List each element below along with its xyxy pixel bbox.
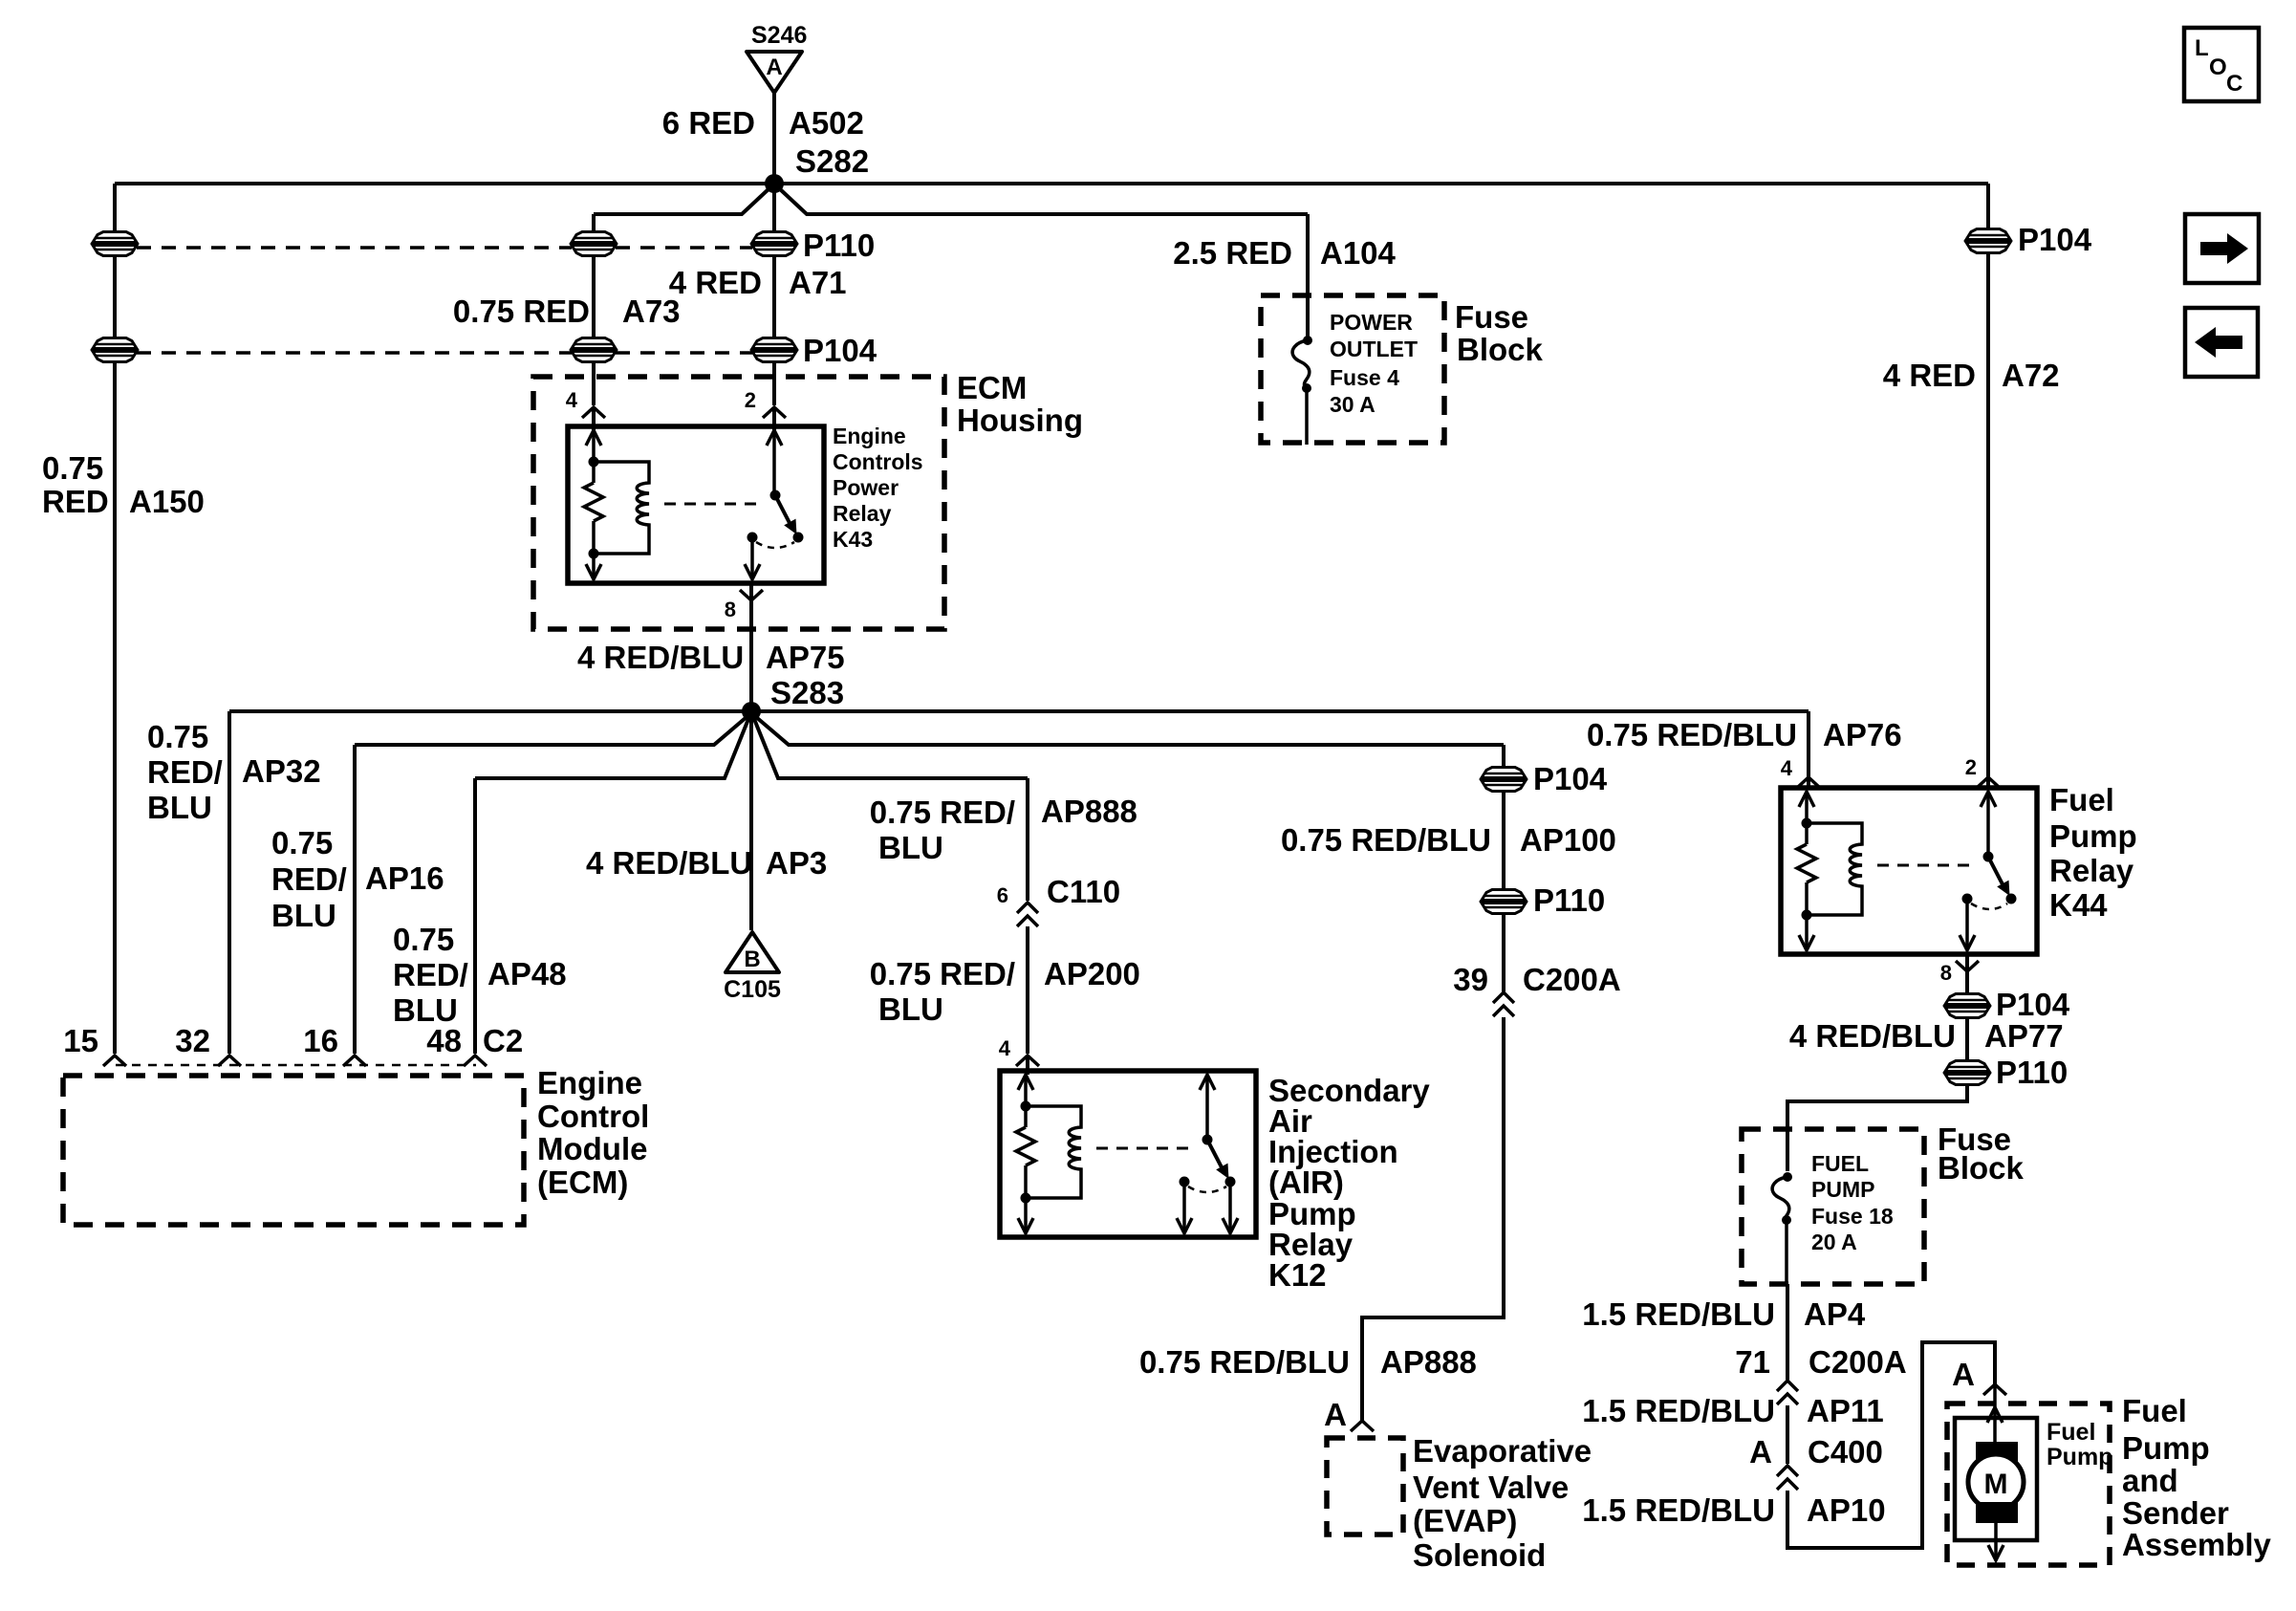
Engine Control Module label <box>537 1065 649 1200</box>
power feed triangle A (S246) <box>747 52 802 93</box>
relay K43 coil <box>594 462 649 554</box>
svg-text:AP200: AP200 <box>1044 956 1140 991</box>
svg-text:Fuse: Fuse <box>1455 299 1528 335</box>
svg-text:POWER: POWER <box>1330 310 1413 335</box>
svg-text:P110: P110 <box>1996 1055 2068 1090</box>
motor ground line <box>1994 1523 1998 1557</box>
arrow left legend box <box>2185 308 2258 377</box>
relay K43 box <box>568 426 824 583</box>
svg-text:O: O <box>2209 54 2227 80</box>
svg-text:Controls: Controls <box>833 449 923 474</box>
svg-text:Assembly: Assembly <box>2122 1527 2272 1562</box>
wire AP100 vertical <box>1502 745 1505 991</box>
svg-text:Vent Valve: Vent Valve <box>1413 1469 1569 1505</box>
svg-text:P104: P104 <box>1996 987 2070 1022</box>
relay K44 switch common line <box>1986 792 1990 857</box>
wire AP200 vertical to K12 <box>1026 926 1029 1054</box>
svg-text:4: 4 <box>566 388 578 412</box>
relay K44 coil branch arrowhead <box>1799 792 1814 807</box>
inline harness connector C400 <box>1777 1466 1798 1490</box>
svg-text:FUEL: FUEL <box>1811 1151 1869 1176</box>
pin 8 terminal chevron (K44) <box>1956 961 1979 971</box>
wire A71 vertical <box>772 184 776 405</box>
inline connector P110 (A71) <box>752 232 796 256</box>
svg-text:Pump: Pump <box>2047 1444 2112 1470</box>
relay K12 left down arrowhead <box>1018 1218 1033 1233</box>
EVAP solenoid dashed box <box>1327 1438 1403 1535</box>
wire pin A to motor <box>1993 1384 1997 1444</box>
fuse 4 top node <box>1303 336 1312 345</box>
wire fork left from S282 <box>594 187 770 214</box>
pin 4 terminal chevron (K12) <box>1016 1056 1039 1066</box>
wire 32 vertical (AP32) <box>227 711 231 1054</box>
relay K44 switch arm <box>1988 857 2010 896</box>
svg-text:Pump: Pump <box>2122 1430 2210 1466</box>
relay K44 resistor <box>1797 844 1816 882</box>
svg-text:0.75: 0.75 <box>147 719 208 754</box>
Fuse Block 2 dashed box <box>1742 1129 1924 1284</box>
pin 4 terminal chevron <box>582 407 605 418</box>
svg-text:32: 32 <box>175 1023 210 1058</box>
svg-text:ECM: ECM <box>957 370 1027 405</box>
fuse 18 lower lead <box>1785 1220 1788 1284</box>
LOC legend box <box>2184 28 2259 101</box>
inline harness connector C200A (39) <box>1493 992 1514 1016</box>
svg-text:AP10: AP10 <box>1807 1492 1886 1528</box>
wire A73 vertical <box>592 214 596 405</box>
svg-text:Engine: Engine <box>537 1065 642 1100</box>
wire label 0.75 RED/ BLU (AP200) <box>870 956 1015 1027</box>
ground triangle B (C105) <box>726 932 779 972</box>
relay K12 switch common line <box>1205 1075 1209 1140</box>
svg-text:RED/: RED/ <box>147 754 223 790</box>
fuse 18 top node <box>1783 1172 1792 1182</box>
svg-text:0.75 RED/: 0.75 RED/ <box>870 956 1015 991</box>
svg-text:4 RED: 4 RED <box>1883 358 1976 393</box>
relay K43 coil branch arrowhead <box>586 430 601 446</box>
relay K43 output contact node <box>747 533 758 543</box>
svg-text:A104: A104 <box>1320 235 1397 271</box>
harness dashed link P110 row <box>137 246 572 250</box>
relay K12 fixed down arrowhead <box>1177 1218 1192 1233</box>
svg-text:Module: Module <box>537 1131 647 1166</box>
svg-text:4: 4 <box>999 1036 1011 1060</box>
relay K12 moving down arrowhead <box>1223 1218 1238 1233</box>
svg-text:4 RED: 4 RED <box>669 265 762 300</box>
svg-text:Solenoid: Solenoid <box>1413 1537 1546 1573</box>
wire label 0.75 RED/BLU (AP32) <box>147 719 223 825</box>
svg-text:(EVAP): (EVAP) <box>1413 1503 1517 1538</box>
inline harness connector C110 <box>1017 903 1038 926</box>
svg-text:AP100: AP100 <box>1520 822 1616 858</box>
pin A terminal chevron (EVAP) <box>1351 1421 1374 1431</box>
svg-text:Block: Block <box>1457 332 1544 367</box>
relay K43 label <box>833 424 923 552</box>
svg-text:Evaporative: Evaporative <box>1413 1433 1592 1469</box>
inline connector P104 (AP100) <box>1482 768 1526 792</box>
pin 48 terminal chevron <box>464 1056 487 1066</box>
wire AP76 from S283 bus <box>1807 711 1810 788</box>
svg-text:0.75: 0.75 <box>271 825 333 860</box>
relay K43 coil bottom node <box>589 549 599 559</box>
inline harness connector C200A (71) <box>1777 1381 1798 1404</box>
Fuel Pump and Sender Assembly dashed box <box>1947 1404 2110 1565</box>
pin 4 terminal chevron (K44) <box>1797 777 1820 788</box>
wire AP4 below fuse block <box>1786 1284 1789 1380</box>
motor M circle <box>1968 1454 2024 1510</box>
wire AP888 lower run <box>1362 1017 1504 1422</box>
pin A terminal chevron (fuel pump) <box>1983 1384 2006 1395</box>
svg-text:0.75 RED/BLU: 0.75 RED/BLU <box>1281 822 1491 858</box>
relay K12 coil bottom node <box>1021 1193 1031 1204</box>
fuse 18 bottom node <box>1782 1215 1791 1225</box>
svg-text:8: 8 <box>1940 961 1952 985</box>
svg-text:OUTLET: OUTLET <box>1330 337 1418 361</box>
svg-text:S282: S282 <box>795 143 869 179</box>
relay K12 resistor <box>1016 1127 1035 1165</box>
svg-text:AP77: AP77 <box>1984 1018 2064 1054</box>
svg-text:RED/: RED/ <box>271 861 347 897</box>
splice S283 bus wire <box>229 709 1809 713</box>
svg-text:A: A <box>1952 1357 1975 1392</box>
svg-text:K12: K12 <box>1268 1257 1327 1293</box>
svg-text:(ECM): (ECM) <box>537 1165 628 1200</box>
POWER OUTLET fuse label <box>1330 310 1418 417</box>
Fuel Pump inner label <box>2047 1419 2112 1470</box>
svg-text:(AIR): (AIR) <box>1268 1165 1344 1200</box>
relay K12 left line upper <box>1024 1075 1028 1127</box>
svg-text:0.75: 0.75 <box>42 450 103 486</box>
relay K44 left line upper <box>1805 792 1809 844</box>
wire fork right from S282 <box>778 187 1308 214</box>
relay K12 coil top node <box>1021 1101 1031 1112</box>
relay K12 fixed contact node <box>1180 1177 1190 1187</box>
svg-text:0.75 RED/BLU: 0.75 RED/BLU <box>1587 717 1797 752</box>
svg-text:C200A: C200A <box>1523 962 1621 997</box>
svg-text:0.75 RED/BLU: 0.75 RED/BLU <box>1139 1344 1350 1380</box>
wire pin4 into relay <box>592 407 596 430</box>
svg-text:2.5 RED: 2.5 RED <box>1173 235 1292 271</box>
relay K44 output contact node <box>1962 894 1973 904</box>
pin 15 terminal chevron <box>103 1056 126 1066</box>
relay K44 left line lower <box>1805 882 1809 947</box>
relay K12 switch arm <box>1207 1140 1229 1179</box>
EVAP solenoid label <box>1413 1433 1592 1573</box>
svg-text:C: C <box>2226 71 2242 97</box>
svg-text:Fuel: Fuel <box>2049 782 2114 817</box>
wire 16 vertical (AP16) <box>353 745 357 1054</box>
svg-text:A: A <box>1749 1434 1772 1469</box>
motor brush block top <box>1976 1442 2018 1463</box>
relay K12 left line lower <box>1024 1165 1028 1230</box>
relay K12 box <box>1000 1071 1256 1237</box>
relay K44 moving contact node <box>2006 894 2017 904</box>
svg-text:BLU: BLU <box>147 790 212 825</box>
wire AP75 from pin 8 to S283 <box>749 583 753 711</box>
Fuel Pump and Sender Assembly label <box>2122 1393 2272 1562</box>
splice S283 node <box>742 702 761 721</box>
relay K43 switch common arrowhead <box>767 430 782 446</box>
svg-text:A502: A502 <box>789 105 864 141</box>
relay K43 actuation dashed link <box>664 503 764 506</box>
svg-text:6: 6 <box>997 883 1008 907</box>
pin 16 terminal chevron <box>343 1056 366 1066</box>
relay K43 left line upper <box>592 430 596 483</box>
relay K12 coil branch arrowhead <box>1018 1075 1033 1090</box>
svg-text:C110: C110 <box>1047 874 1120 909</box>
relay K43 coil top node <box>589 457 599 468</box>
svg-text:1.5 RED/BLU: 1.5 RED/BLU <box>1582 1296 1775 1332</box>
svg-text:0.75 RED: 0.75 RED <box>453 294 590 329</box>
relay K44 switch common arrowhead <box>1981 792 1996 807</box>
wire 48 vertical (AP48) <box>473 778 477 1054</box>
svg-text:A71: A71 <box>789 265 847 300</box>
svg-text:AP32: AP32 <box>242 753 321 789</box>
relay K12 label <box>1268 1073 1430 1293</box>
relay K12 switch pivot node <box>1202 1135 1213 1145</box>
inline connector P110 (AP77) <box>1945 1061 1989 1085</box>
svg-text:BLU: BLU <box>878 991 943 1027</box>
relay K43 moving contact node <box>793 533 804 543</box>
svg-text:AP76: AP76 <box>1823 717 1902 752</box>
svg-text:C2: C2 <box>483 1023 523 1058</box>
wire AP888 vertical to C110 <box>1026 778 1029 901</box>
pin 32 terminal chevron <box>218 1056 241 1066</box>
relay K43 switch arm <box>775 495 797 534</box>
svg-text:L: L <box>2195 35 2209 61</box>
svg-text:Fuse 4: Fuse 4 <box>1330 365 1399 390</box>
svg-text:A72: A72 <box>2002 358 2060 393</box>
relay K12 coil <box>1026 1106 1081 1198</box>
fork to AP100 <box>756 717 1504 745</box>
relay K12 actuation dashed link <box>1096 1147 1196 1150</box>
relay K44 coil top node <box>1802 818 1812 829</box>
relay K12 contact dashed arc <box>1188 1186 1226 1192</box>
svg-text:and: and <box>2122 1463 2178 1498</box>
inline connector (A150 / P110 row) <box>93 232 137 256</box>
relay K43 resistor <box>584 483 603 521</box>
svg-text:39: 39 <box>1453 962 1488 997</box>
Fuse Block 1 dashed box <box>1261 295 1444 443</box>
svg-text:Relay: Relay <box>2049 853 2134 888</box>
relay K12 switch common arrowhead <box>1200 1075 1215 1090</box>
svg-text:1.5 RED/BLU: 1.5 RED/BLU <box>1582 1492 1775 1528</box>
ECM pin row dashed line <box>116 1064 476 1067</box>
inline connector P110 (AP100) <box>1482 890 1526 914</box>
fork to AP48 <box>475 719 748 778</box>
inline connector P104 (A71) <box>752 338 796 362</box>
fuse 18 element <box>1772 1177 1789 1223</box>
svg-text:4 RED/BLU: 4 RED/BLU <box>577 640 744 675</box>
svg-text:16: 16 <box>303 1023 338 1058</box>
svg-text:RED/: RED/ <box>393 957 468 992</box>
svg-text:Housing: Housing <box>957 403 1083 438</box>
inline connector P104 (A73) <box>572 338 616 362</box>
inline connector P104 (AP77) <box>1945 994 1989 1018</box>
FUEL PUMP fuse label <box>1811 1151 1894 1254</box>
motor brush block bottom <box>1976 1502 2018 1523</box>
pin 2 terminal chevron <box>763 407 786 418</box>
wire pin4 into relay K12 <box>1026 1056 1029 1075</box>
Fuse Block 2 label <box>1938 1121 2025 1186</box>
svg-text:M: M <box>1984 1469 2008 1500</box>
relay K44 contact dashed arc <box>1971 903 2007 909</box>
fuse 4 bottom node <box>1302 383 1311 393</box>
svg-text:4: 4 <box>1781 756 1793 780</box>
svg-text:Relay: Relay <box>833 501 892 526</box>
svg-text:A: A <box>1324 1397 1347 1432</box>
relay K12 moving contact line <box>1228 1186 1232 1230</box>
svg-text:BLU: BLU <box>878 830 943 865</box>
fork to AP888/C110 <box>754 719 1028 778</box>
pin 8 terminal chevron <box>740 590 763 600</box>
svg-text:Pump: Pump <box>2049 818 2137 854</box>
relay K44 coil <box>1807 823 1862 915</box>
relay K43 output line <box>750 537 754 576</box>
svg-text:K43: K43 <box>833 527 873 552</box>
relay K44 output down arrowhead <box>1960 935 1975 950</box>
svg-text:4 RED/BLU: 4 RED/BLU <box>586 845 752 881</box>
svg-text:AP75: AP75 <box>766 640 845 675</box>
svg-text:Power: Power <box>833 475 899 500</box>
inline connector (A150 / P104 row) <box>93 338 137 362</box>
fuel pump inner box <box>1955 1418 2037 1540</box>
wire label 0.75 RED/BLU (AP16) <box>271 825 347 933</box>
svg-text:2: 2 <box>1965 755 1977 779</box>
svg-text:K44: K44 <box>2049 887 2108 923</box>
wire AP10 to fuel pump <box>1787 1342 1995 1548</box>
svg-text:A150: A150 <box>129 484 205 519</box>
relay K44 box <box>1781 788 2037 954</box>
svg-text:AP11: AP11 <box>1807 1393 1884 1428</box>
relay K43 output down arrowhead <box>745 564 760 579</box>
wire pin2 into relay <box>772 407 776 430</box>
arrow right legend box <box>2185 214 2259 283</box>
relay K44 coil bottom node <box>1802 910 1812 921</box>
relay K43 contact dashed arc <box>756 542 794 548</box>
wire A150 left vertical <box>113 184 117 1054</box>
svg-text:48: 48 <box>426 1023 462 1058</box>
svg-text:B: B <box>744 947 760 972</box>
svg-text:0.75: 0.75 <box>393 922 454 957</box>
wire label 0.75 RED (A150) <box>42 450 109 519</box>
wire AP11 <box>1786 1405 1789 1464</box>
svg-text:0.75 RED/: 0.75 RED/ <box>870 795 1015 830</box>
wire branch to fuse block (A104) <box>1306 214 1310 337</box>
svg-text:AP4: AP4 <box>1804 1296 1866 1332</box>
wire label 0.75 RED/BLU (AP48) <box>393 922 468 1028</box>
Engine Control Module dashed box <box>63 1076 524 1225</box>
svg-text:C200A: C200A <box>1809 1344 1907 1380</box>
svg-text:2: 2 <box>745 388 756 412</box>
svg-text:C105: C105 <box>724 976 781 1003</box>
relay K43 switch pivot node <box>770 490 781 501</box>
svg-text:30 A: 30 A <box>1330 392 1375 417</box>
svg-text:A: A <box>766 54 782 80</box>
svg-text:1.5 RED/BLU: 1.5 RED/BLU <box>1582 1393 1775 1428</box>
relay K44 left down arrowhead <box>1799 935 1814 950</box>
svg-text:BLU: BLU <box>271 898 336 933</box>
svg-text:RED: RED <box>42 484 109 519</box>
harness dashed link P104 row b <box>616 351 752 355</box>
harness dashed link P104 row <box>137 351 572 355</box>
svg-text:Fuse 18: Fuse 18 <box>1811 1204 1894 1229</box>
wire label 0.75 RED/ BLU (AP888) <box>870 795 1015 865</box>
svg-text:20 A: 20 A <box>1811 1230 1857 1254</box>
svg-text:6 RED: 6 RED <box>662 105 755 141</box>
svg-text:71: 71 <box>1735 1344 1770 1380</box>
relay K12 fixed contact line <box>1182 1182 1186 1230</box>
svg-text:P110: P110 <box>1533 882 1605 918</box>
svg-text:S283: S283 <box>770 675 844 710</box>
relay K44 output line <box>1965 899 1969 947</box>
wire AP3 vertical <box>749 711 753 930</box>
svg-text:Engine: Engine <box>833 424 906 448</box>
fuse 4 lower lead <box>1305 388 1309 445</box>
relay K12 moving contact node <box>1225 1177 1236 1187</box>
svg-text:C400: C400 <box>1808 1434 1883 1469</box>
harness dashed link P110 row b <box>616 246 752 250</box>
relay K44 switch pivot node <box>1983 852 1994 862</box>
relay K43 left line lower <box>592 521 596 576</box>
svg-text:Fuel: Fuel <box>2047 1419 2095 1446</box>
Fuse Block 1 label <box>1455 299 1544 367</box>
ECM Housing dashed box <box>533 377 944 629</box>
svg-text:AP3: AP3 <box>766 845 827 881</box>
svg-text:A73: A73 <box>622 294 681 329</box>
ECM Housing label <box>957 370 1083 438</box>
svg-text:P104: P104 <box>803 333 877 368</box>
wire AP77 from pin 8 <box>1787 954 1967 1171</box>
svg-text:S246: S246 <box>751 22 807 49</box>
svg-text:P104: P104 <box>1533 761 1608 796</box>
svg-text:Block: Block <box>1938 1150 2025 1186</box>
pin 2 terminal chevron (K44) <box>1977 777 2000 788</box>
fuse 4 element <box>1292 340 1310 386</box>
fork to AP16 <box>355 717 747 745</box>
svg-text:8: 8 <box>725 598 736 621</box>
wire A502 from triangle to S282 <box>772 90 776 184</box>
svg-text:4 RED/BLU: 4 RED/BLU <box>1789 1018 1956 1054</box>
svg-text:P104: P104 <box>2018 222 2092 257</box>
svg-text:AP48: AP48 <box>487 956 567 991</box>
relay K43 left down arrowhead <box>586 564 601 579</box>
svg-text:AP16: AP16 <box>365 860 444 896</box>
svg-text:15: 15 <box>63 1023 98 1058</box>
motor ground arrowhead <box>1988 1545 2004 1560</box>
fuel pump feed arrowhead <box>1987 1407 2003 1423</box>
inline connector P104 (A72) <box>1966 229 2010 253</box>
splice S282 node <box>765 174 784 193</box>
svg-text:P110: P110 <box>803 228 875 263</box>
svg-text:Fuel: Fuel <box>2122 1393 2187 1428</box>
svg-text:Control: Control <box>537 1099 649 1134</box>
svg-text:PUMP: PUMP <box>1811 1177 1874 1202</box>
relay K44 actuation dashed link <box>1877 864 1977 867</box>
svg-text:AP888: AP888 <box>1380 1344 1477 1380</box>
wire A72 right vertical <box>1986 184 1990 788</box>
svg-text:Sender: Sender <box>2122 1495 2229 1531</box>
svg-text:AP888: AP888 <box>1041 794 1137 829</box>
main feed wire (horizontal bus) <box>115 182 1988 185</box>
relay K43 switch common line <box>772 430 776 495</box>
inline connector P110 (A73) <box>572 232 616 256</box>
relay K44 label <box>2049 782 2137 923</box>
